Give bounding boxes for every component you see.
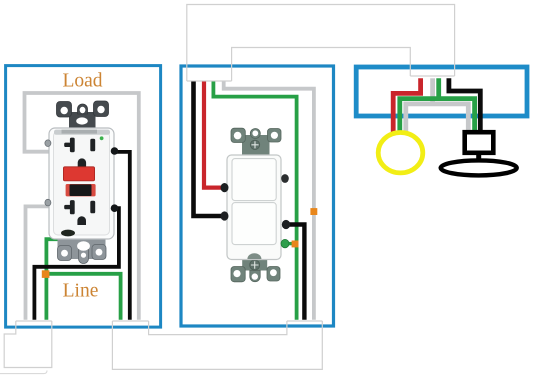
S1 bottom strap mounting screw: [250, 260, 260, 270]
S1 top strap mounting screw: [250, 140, 259, 149]
S1 upper rocker: [232, 159, 276, 201]
svg-text:Load: Load: [62, 71, 102, 92]
S1 lower rocker: [232, 203, 276, 245]
wire: black hot feed in box B2 (top entry to lower-left switch terminal): [194, 82, 225, 217]
U1 bottom mounting strap with ears: [58, 236, 107, 264]
electrical box B2 (switch box): [181, 66, 334, 326]
electrical box B3 (ceiling box): [356, 67, 527, 116]
GFCI receptacle U1 in box B1: [45, 101, 118, 264]
U1 top mounting strap with ears: [57, 101, 109, 130]
cable C1 sheath (line feed into box B1, bottom-left entry): [4, 321, 52, 368]
U1 ground terminal screw (green wire attachment): [61, 230, 75, 237]
cable C0 sheath (feed from panel, lower-left edge): [0, 371, 47, 374]
wire: black switch leg in box B2 (lower-right switch terminal down to bottom cable): [285, 225, 304, 320]
S1 bottom mounting strap with ears: [231, 255, 280, 282]
wire: red switched hot in box B3 (entry down-left to light LT1): [393, 78, 420, 134]
double rocker switch S1 in box B2: [221, 128, 291, 282]
S1 upper-left terminal screw (red wire): [221, 183, 229, 192]
fan M1 motor housing: [465, 132, 494, 153]
cable C3 sheath (box B2 to box B3, outer top run): [187, 5, 455, 82]
S1 upper-right terminal screw: [281, 174, 289, 183]
S1 white body: [227, 155, 281, 260]
U1 right side hot terminal screws (wire attachments): [111, 147, 119, 155]
fan M1 blades (ellipse): [441, 160, 517, 175]
wire: black hot line in box B1 (outlet bottom-right screw to line cable): [34, 208, 119, 320]
U1 top receptacle hot slot: [90, 139, 95, 152]
U1 top receptacle ground hole: [78, 158, 86, 167]
electrical box B1 (GFCI outlet box): [6, 66, 161, 328]
fan M1 stem: [476, 153, 481, 163]
wire: black hot load in box B1 (outlet top-right screw to load cable): [110, 152, 130, 320]
S1 top mounting strap with ears: [231, 128, 281, 155]
U1 top receptacle neutral T-slot: [64, 138, 95, 168]
U1 RESET button (black over red base): [66, 184, 96, 196]
U1 white body: [49, 128, 114, 239]
wire: white neutral load loop in box B1 (outlet top-left screw over top to load cable): [25, 93, 139, 320]
wire: white neutral stub from entry in box B3: [430, 78, 435, 104]
cable C4 sheath (box B2 to box B3, inner top run): [187, 48, 455, 82]
U1 bottom receptacle ground hole: [77, 216, 86, 225]
wire: white neutral tee in box B3 (to light LT1 and fan M1): [406, 104, 469, 135]
U1 body top edge shading bar: [54, 130, 110, 135]
svg-text:Line: Line: [63, 281, 99, 302]
junction: orange wire connector on green ground in box B2: [292, 241, 299, 248]
wire: red switched leg in box B2 (top entry to upper-left switch terminal): [204, 82, 224, 188]
wire: green ground pigtail from switch S1 ground screw: [283, 242, 297, 245]
U1 bottom receptacle neutral T-slot: [64, 200, 95, 225]
wire: green ground pigtail and tee in box B1: [46, 239, 120, 320]
U1 indicator LED: [100, 136, 104, 140]
S1 lower-left terminal screw (black wire): [221, 211, 229, 220]
wire: green ground in box B2 (top entry across and down to bottom cable): [213, 82, 296, 320]
U1 bottom receptacle hot slot: [90, 201, 95, 214]
cable C2 sheath (box B1 to box B2, bottom run): [112, 321, 322, 369]
junction: orange wire connector on white neutral in box B2: [310, 208, 317, 215]
wire: black hot in box B3 (entry down-right to fan M1): [449, 78, 480, 133]
S1 lower-right terminal screw (black wire): [282, 220, 290, 229]
U1 left side neutral screws: [45, 140, 51, 147]
wire: white neutral in box B2 (top entry across and down to bottom cable): [224, 82, 314, 320]
U1 TEST button (red): [63, 167, 94, 181]
S1 strap notch visible at body bottom: [247, 253, 261, 259]
S1 ground screw (green): [281, 239, 289, 247]
wire: white neutral line in box B1 (outlet bottom-left screw to line cable): [26, 206, 50, 319]
junction: orange wire connector on ground tee in box B1: [42, 270, 50, 278]
light fixture LT1 (yellow lamp circle): [378, 133, 423, 173]
wire: green ground tee in box B3 (to light LT1 and fan M1): [400, 78, 475, 134]
